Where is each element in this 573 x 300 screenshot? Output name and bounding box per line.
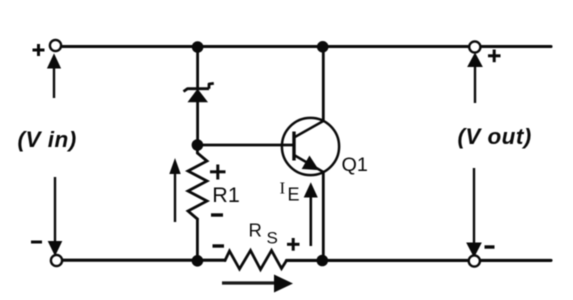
svg-text:R: R (249, 220, 262, 241)
wire bottom rail left of RS (57, 259, 225, 262)
label + for R1 (210, 165, 226, 180)
node junction bottom left (192, 255, 204, 267)
arrow V_in top (48, 55, 61, 99)
arrow V_in bottom (49, 177, 62, 255)
label - for RS left (213, 244, 225, 247)
wire bottom rail right of RS (287, 259, 552, 262)
arrow V_out top (468, 54, 482, 104)
wire emitter (322, 172, 325, 261)
wire top rail (56, 45, 551, 48)
arrow R1 polarity (170, 160, 180, 223)
wire zener branch bottom (196, 101, 199, 146)
node junction top collector (317, 41, 329, 53)
svg-text:(V in): (V in) (18, 127, 77, 152)
terminal V_out - (469, 255, 480, 266)
terminal V_in + (50, 40, 61, 51)
label + for RS right (287, 238, 300, 251)
node junction top zener (192, 41, 204, 53)
wire base node to R1 (196, 145, 199, 153)
svg-text:E: E (288, 185, 300, 205)
arrow V_out bottom (467, 168, 481, 257)
svg-text:S: S (267, 229, 278, 248)
wire collector (322, 47, 325, 122)
arrow current direction below RS (222, 275, 293, 293)
terminal V_in - (51, 255, 62, 266)
transistor Q1 (282, 118, 339, 175)
resistor RS zigzag (225, 251, 287, 270)
label + for V_in top (33, 44, 45, 56)
label - for V_out bottom (485, 245, 495, 248)
label - for V_in bottom (31, 241, 42, 244)
resistor R1 zigzag (188, 153, 207, 219)
node base junction (192, 139, 204, 151)
zener diode (184, 83, 214, 101)
wire zener branch top (196, 47, 199, 89)
svg-text:R1: R1 (212, 183, 239, 207)
node junction bottom emitter (317, 255, 329, 267)
label - for R1 (211, 213, 223, 216)
arrow I_E (305, 184, 318, 247)
svg-text:(V out): (V out) (458, 124, 532, 149)
label + for V_out top (488, 50, 501, 63)
svg-text:I: I (280, 179, 286, 198)
wire base (197, 144, 294, 147)
wire R1 to bottom rail (196, 219, 199, 261)
svg-text:Q1: Q1 (342, 154, 368, 176)
terminal V_out + (469, 41, 480, 52)
